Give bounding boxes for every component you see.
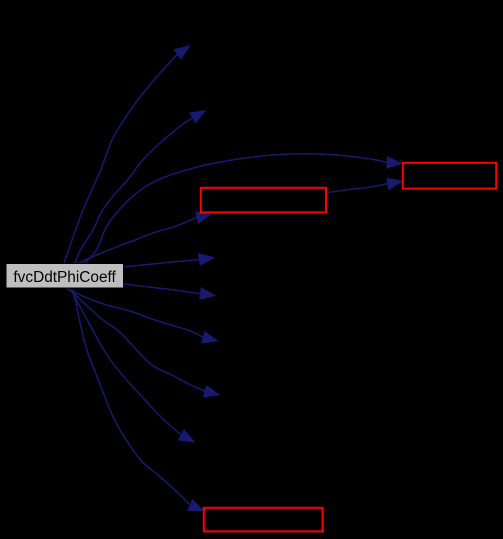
wire edge e6 -> arrow: [123, 284, 215, 300]
node fvcDdtPhiCoeff (current function, gray box): [6, 264, 124, 289]
wire edge middle box -> right box: [327, 178, 403, 193]
node right red box: [403, 163, 496, 189]
wire edge e4 -> middle red box: [76, 212, 212, 264]
svg-text:fvcDdtPhiCoeff: fvcDdtPhiCoeff: [13, 269, 116, 286]
node middle red box: [201, 188, 326, 213]
wire edge e10 -> bottom red box: [73, 290, 204, 511]
node bottom red box: [204, 508, 323, 532]
wire edge e9 -> arrow: [71, 290, 195, 442]
wire edge e8 -> arrow: [69, 289, 220, 397]
wire edge e2 -> second arrow: [75, 111, 206, 264]
wire edge e3 -> right red box: [85, 154, 402, 263]
wire edge e5 -> arrow: [123, 254, 214, 267]
wire edge e1 -> top arrow: [64, 46, 190, 263]
wire edge e7 -> arrow: [67, 289, 218, 343]
